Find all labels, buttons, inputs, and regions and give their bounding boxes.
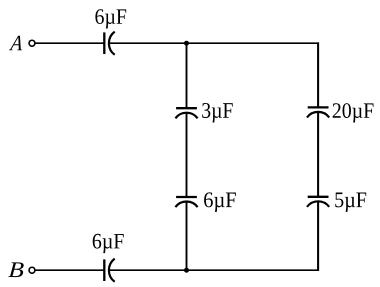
wire 6uF to bottom node (middle branch) <box>186 202 188 270</box>
wire C2 to bottom-right corner (through node at bottom) <box>109 269 318 271</box>
capacitor 6uF (middle branch, lower) <box>175 197 197 207</box>
capacitor 3uF (middle branch, upper) <box>175 108 197 118</box>
capacitor 6uF (top left, C1) <box>104 32 114 55</box>
capacitor 5uF (right branch, lower) <box>307 197 329 207</box>
node label B <box>8 262 23 277</box>
wire between 3uF and 6uF (middle branch) <box>186 113 188 197</box>
value label 3uF <box>202 103 233 122</box>
value label 6uF (top left) <box>95 9 126 28</box>
junction node (top) <box>184 41 189 46</box>
capacitor 20uF (right branch, upper) <box>307 107 329 117</box>
wire C1 to top-right corner (through node at top) <box>109 42 318 44</box>
terminal B <box>29 267 35 273</box>
wire between 20uF and 5uF (right branch) <box>317 113 319 197</box>
terminal A <box>29 40 35 46</box>
wire top node down to 3uF capacitor <box>186 43 188 108</box>
value label 6uF (bottom left) <box>93 234 124 253</box>
node label A <box>9 36 22 50</box>
capacitor 6uF (bottom left, C2) <box>104 259 114 282</box>
wire 5uF to bottom-right corner <box>317 202 319 271</box>
value label 5uF <box>335 193 366 212</box>
wire right rail: top corner down to 20uF <box>317 42 319 107</box>
value label 6uF (middle) <box>204 192 236 211</box>
wire B terminal to capacitor C2 <box>35 269 104 271</box>
wire A terminal to capacitor C1 <box>35 42 104 44</box>
value label 20uF <box>333 103 374 122</box>
junction node (bottom) <box>184 268 189 273</box>
